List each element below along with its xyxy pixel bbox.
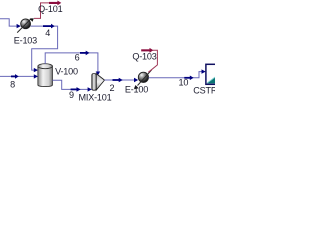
stream 9 wire <box>52 80 91 91</box>
svg-text:Q-101: Q-101 <box>38 4 62 14</box>
energy stream Q-103 arrow <box>141 48 153 53</box>
svg-text:6: 6 <box>75 53 80 63</box>
svg-text:10: 10 <box>179 78 189 88</box>
svg-text:V-100: V-100 <box>55 66 78 76</box>
stream 6 wire <box>45 53 100 76</box>
stream 6 arrow <box>80 51 90 56</box>
svg-text:9: 9 <box>69 90 74 100</box>
cooler E-103 <box>17 18 34 32</box>
mixer MIX-101 <box>92 74 105 91</box>
energy stream Q-103 wire <box>148 50 157 72</box>
stream 4 wire <box>31 26 58 72</box>
stream 2 wire <box>105 78 139 82</box>
stream 10 wire <box>149 69 206 77</box>
svg-text:4: 4 <box>45 28 50 38</box>
svg-text:E-100: E-100 <box>125 85 148 95</box>
heater E-100 <box>134 70 152 89</box>
reactor CSTR-100 <box>206 64 217 84</box>
svg-text:E-103: E-103 <box>14 36 37 46</box>
svg-text:8: 8 <box>10 80 15 90</box>
svg-text:CSTR-100: CSTR-100 <box>193 85 215 95</box>
stream 8 wire <box>0 74 38 78</box>
stream 4 arrow <box>43 24 55 29</box>
svg-text:Q-103: Q-103 <box>132 52 156 62</box>
svg-text:2: 2 <box>109 83 114 93</box>
separator V-100 <box>38 64 53 87</box>
energy stream Q-101 wire <box>34 3 50 19</box>
energy stream Q-101 arrow <box>49 1 61 6</box>
svg-text:MIX-101: MIX-101 <box>79 92 112 102</box>
stream 10 arrow <box>184 76 193 81</box>
stream 2 arrow <box>113 78 123 83</box>
stream 9 arrow <box>71 87 81 92</box>
stream 8 arrow <box>11 74 19 79</box>
wire inlet stream to E-103 <box>0 19 21 29</box>
